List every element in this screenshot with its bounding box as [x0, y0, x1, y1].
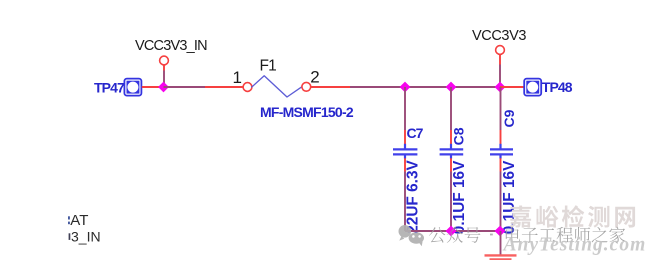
svg-text:VCC3V3_IN: VCC3V3_IN	[135, 38, 207, 54]
svg-text:TP48: TP48	[542, 79, 573, 95]
test point TP48	[524, 79, 541, 96]
svg-text:TP47: TP47	[94, 79, 125, 95]
wire junction to fuse	[164, 86, 206, 88]
wire main bus	[350, 86, 501, 88]
junction node C8 bottom	[446, 226, 457, 237]
pin wire TP47	[142, 86, 164, 88]
watermark pink text	[510, 205, 635, 227]
capacitor C7 branch wire bottom	[404, 158, 406, 171]
svg-text:3_IN: 3_IN	[71, 228, 101, 244]
fuse F1 pin 2 wire	[311, 86, 350, 88]
wire bottom bus	[405, 230, 500, 232]
svg-text:0.1UF 16V: 0.1UF 16V	[451, 160, 468, 234]
wire VCC3V3 vertical	[499, 65, 501, 88]
fuse F1 pin 2 circle	[302, 82, 311, 91]
junction node C9 bottom	[495, 226, 506, 237]
power symbol VCC3V3_IN	[160, 56, 169, 65]
watermark wechat icon	[399, 225, 424, 246]
svg-text:22UF 6.3V: 22UF 6.3V	[404, 159, 421, 233]
svg-text:2: 2	[310, 68, 319, 87]
pin wire TP48	[500, 86, 524, 88]
junction node VCC3V3_IN	[158, 82, 169, 93]
svg-text:AT: AT	[70, 212, 88, 229]
capacitor C8 branch wire top	[450, 87, 452, 130]
junction node C7 top	[400, 82, 411, 93]
test point TP47	[124, 79, 141, 96]
capacitor C8 branch wire bottom	[450, 158, 452, 171]
capacitor C9 branch wire top	[500, 87, 502, 130]
capacitor C7 branch wire top	[404, 87, 406, 130]
svg-text:C7: C7	[407, 125, 424, 141]
ground	[485, 255, 517, 259]
capacitor C7	[393, 144, 417, 159]
wire VCC3V3_IN vertical	[163, 71, 165, 88]
svg-text:F1: F1	[260, 58, 277, 75]
svg-text:VCC3V3: VCC3V3	[472, 28, 526, 44]
junction node VCC3V3	[495, 82, 506, 93]
power symbol VCC3V3	[496, 46, 505, 55]
fuse F1 body	[252, 76, 302, 97]
junction node C8 top	[446, 82, 457, 93]
svg-text:C8: C8	[450, 127, 466, 145]
fuse F1 pin 1 wire	[205, 86, 244, 88]
svg-text:MF-MSMF150-2: MF-MSMF150-2	[260, 104, 354, 120]
svg-text:AnyTesting.com: AnyTesting.com	[502, 234, 647, 255]
svg-text:1: 1	[233, 68, 242, 87]
capacitor C8	[440, 144, 464, 159]
fuse F1 pin 1 circle	[243, 83, 252, 92]
watermark gray text	[429, 227, 481, 243]
capacitor C9 branch wire bottom	[500, 158, 502, 171]
capacitor C9	[490, 144, 513, 159]
svg-text:C9: C9	[501, 109, 517, 127]
wire to ground	[500, 231, 502, 255]
